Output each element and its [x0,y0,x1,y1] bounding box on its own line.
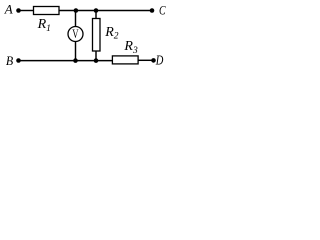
svg-text:B: B [6,53,13,68]
wire [19,10,34,12]
svg-text:C: C [159,3,166,18]
node C [150,3,166,18]
resistor R1 [34,7,60,15]
resistor R2 [93,11,101,61]
node D [151,52,163,67]
wire [59,10,152,12]
voltmeter V [68,11,83,61]
node B [6,53,21,68]
node A [4,2,21,17]
junction [94,58,99,63]
wire [138,59,154,61]
svg-text:A: A [4,2,13,17]
junction [74,8,79,13]
junction [94,8,99,13]
svg-text:V: V [72,26,79,41]
svg-text:D: D [155,52,164,67]
junction [73,58,78,63]
wire [19,60,113,62]
resistor R3 [112,56,138,64]
